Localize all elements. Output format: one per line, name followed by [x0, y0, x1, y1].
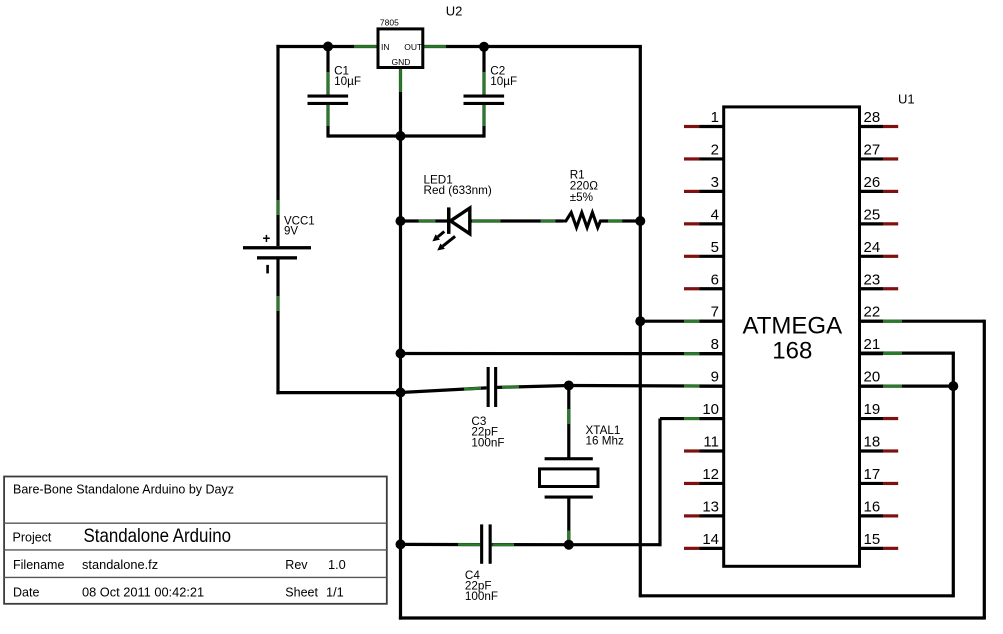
label R1 220ohm 5%: [570, 169, 599, 204]
wire C3 right lead: [497, 386, 569, 388]
wire AREF/AVCC vertical riser: [952, 353, 955, 597]
wire pin7 VCC: [640, 320, 723, 323]
pin 11 U1: [684, 434, 725, 452]
pin 13 U1: [684, 498, 725, 516]
title block text: date row: [13, 585, 344, 600]
svg-text:7: 7: [711, 304, 719, 321]
wire pin9 XTAL: [569, 384, 724, 388]
pin 3 U1: [684, 174, 725, 192]
pin 18 U1: [858, 434, 898, 452]
voltage regulator U2 7805: [378, 18, 423, 68]
node C4 GND junction: [396, 539, 406, 549]
wire C3 left lead: [401, 388, 487, 393]
svg-text:8: 8: [711, 336, 719, 353]
wire capacitor bottom rail C1-C2: [328, 134, 484, 137]
svg-text:5: 5: [711, 239, 719, 256]
crystal XTAL1: [540, 457, 599, 498]
pin 16 U1: [858, 498, 898, 516]
node C2 top junction: [479, 42, 489, 52]
pin 8 U1: [684, 336, 725, 354]
svg-text:Date: Date: [13, 586, 39, 600]
pin 10 U1: [684, 401, 725, 419]
svg-text:21: 21: [864, 336, 881, 353]
svg-text:13: 13: [702, 498, 719, 515]
svg-text:12: 12: [702, 466, 719, 483]
svg-text:Project: Project: [13, 531, 52, 545]
node pin8 GND junction: [396, 349, 406, 359]
svg-text:27: 27: [864, 141, 881, 158]
svg-text:10µF: 10µF: [334, 75, 361, 88]
svg-text:100nF: 100nF: [471, 436, 504, 449]
title block text: filename row: [13, 557, 346, 572]
pin 12 U1: [684, 466, 725, 484]
label ATMEGA 168: [743, 313, 843, 365]
label LED1 Red (633nm): [424, 174, 492, 197]
svg-text:4: 4: [711, 206, 719, 223]
pin 7 U1: [684, 304, 725, 322]
wire crystal top lead: [567, 386, 570, 458]
node C1 top junction: [323, 42, 333, 52]
wire pin8 GND: [401, 352, 724, 355]
svg-text:±5%: ±5%: [570, 191, 593, 204]
wire C2 bottom lead: [482, 105, 485, 138]
wire pin20 AVCC: [860, 385, 954, 388]
svg-text:23: 23: [864, 271, 881, 288]
svg-text:16 Mhz: 16 Mhz: [586, 435, 624, 448]
label C1 10uF: [334, 64, 361, 88]
wire C1 top lead: [326, 47, 329, 95]
svg-text:10µF: 10µF: [490, 75, 517, 88]
title block text: project row: [13, 525, 232, 547]
pin 26 U1: [858, 174, 898, 192]
pin 6 U1: [684, 271, 725, 289]
capacitor C3: [487, 367, 498, 407]
pin 17 U1: [858, 466, 898, 484]
svg-text:standalone.fz: standalone.fz: [82, 557, 158, 572]
pin 25 U1: [858, 206, 898, 224]
pin 23 U1: [858, 271, 898, 289]
svg-text:7805: 7805: [380, 18, 399, 28]
node LED cathode junction: [396, 216, 406, 226]
svg-text:Filename: Filename: [13, 558, 64, 572]
title block frame: [4, 477, 387, 604]
svg-text:1: 1: [711, 109, 719, 126]
capacitor C1: [308, 95, 349, 106]
label XTAL1 16 Mhz: [586, 424, 624, 448]
svg-text:28: 28: [864, 109, 881, 126]
IC U1 ATMEGA168 body: [724, 107, 860, 566]
svg-text:14: 14: [702, 531, 719, 548]
wire top +9V/+5V rail: [276, 45, 642, 48]
pin 24 U1: [858, 239, 898, 256]
svg-text:U1: U1: [898, 92, 915, 107]
resistor R1: [563, 213, 603, 228]
svg-text:18: 18: [864, 434, 881, 451]
node pin7 +5V junction: [635, 316, 645, 326]
label C4 22pF 100nF: [465, 569, 498, 603]
wire C4 right lead: [492, 543, 569, 546]
pin 14 U1: [684, 531, 725, 549]
svg-text:6: 6: [711, 271, 719, 288]
wire C2 top lead: [482, 47, 485, 95]
label C3 22pF 100nF: [471, 415, 504, 449]
pin 20 U1: [858, 369, 902, 387]
svg-text:16: 16: [864, 498, 881, 515]
pin 4 U1: [684, 206, 725, 224]
svg-text:U2: U2: [446, 3, 463, 18]
svg-text:ATMEGA: ATMEGA: [743, 313, 843, 340]
pin 27 U1: [858, 141, 898, 159]
wire LED-R1 branch: [401, 219, 641, 222]
capacitor C4: [480, 524, 492, 563]
svg-text:19: 19: [864, 401, 881, 418]
pin 2 U1: [684, 141, 725, 159]
wire +5V vertical drop from regulator OUT: [639, 47, 642, 596]
node crystal top junction: [564, 381, 574, 391]
wire pin21 AREF: [860, 352, 955, 355]
svg-text:24: 24: [864, 239, 881, 256]
svg-text:2: 2: [711, 141, 719, 158]
svg-text:GND: GND: [392, 57, 411, 67]
svg-text:26: 26: [864, 174, 881, 191]
svg-text:Rev: Rev: [285, 558, 308, 572]
svg-text:3: 3: [711, 174, 719, 191]
svg-text:9: 9: [711, 369, 719, 386]
wire C4 left lead: [401, 543, 481, 546]
pin 19 U1: [858, 401, 898, 419]
wire AVCC bottom run: [640, 594, 953, 597]
pin 5 U1: [684, 239, 725, 256]
svg-text:1/1: 1/1: [326, 585, 344, 600]
svg-text:100nF: 100nF: [465, 590, 498, 603]
wire pin22 GND: [860, 320, 985, 323]
svg-text:+: +: [263, 231, 271, 246]
svg-text:IN: IN: [381, 42, 390, 52]
wire GND left vertical (7805 GND): [399, 68, 402, 620]
wire bottom GND rail: [399, 616, 986, 619]
svg-text:15: 15: [864, 531, 881, 548]
svg-text:08 Oct 2011 00:42:21: 08 Oct 2011 00:42:21: [82, 585, 204, 600]
wire crystal bottom lead: [567, 498, 570, 544]
pin 15 U1: [858, 531, 898, 549]
svg-text:1.0: 1.0: [328, 557, 346, 572]
node battery/C3 GND junction: [396, 388, 406, 398]
svg-text:10: 10: [702, 401, 719, 418]
wire GND right vertical: [983, 320, 986, 618]
svg-text:25: 25: [864, 206, 881, 223]
node R1 +5V junction: [635, 216, 645, 226]
svg-text:20: 20: [864, 369, 881, 386]
svg-text:22: 22: [864, 304, 881, 321]
node GND rail junction: [396, 131, 406, 141]
pin 21 U1: [858, 336, 902, 354]
svg-text:Standalone Arduino: Standalone Arduino: [84, 525, 232, 547]
LED LED1: [432, 207, 469, 250]
wire C1 bottom lead: [326, 105, 329, 138]
battery VCC1 9V: [243, 231, 311, 273]
wire pin10 XTAL2: [569, 419, 724, 547]
capacitor C2: [464, 95, 505, 106]
svg-text:9V: 9V: [284, 226, 298, 238]
wire battery positive vertical: [276, 45, 279, 246]
svg-text:Bare-Bone Standalone Arduino b: Bare-Bone Standalone Arduino by Dayz: [13, 482, 234, 496]
label VCC1 9V: [284, 215, 315, 237]
svg-text:Sheet: Sheet: [285, 586, 318, 600]
svg-text:OUT: OUT: [404, 42, 422, 52]
svg-text:168: 168: [772, 338, 812, 365]
node crystal bottom junction: [564, 540, 574, 550]
svg-text:17: 17: [864, 466, 881, 483]
node pin20 AVCC junction: [948, 381, 958, 391]
wire battery negative to GND node: [276, 259, 400, 394]
label C2 10uF: [490, 64, 517, 88]
svg-text:Red (633nm): Red (633nm): [424, 184, 492, 197]
pin 28 U1: [858, 109, 898, 127]
svg-text:11: 11: [703, 434, 719, 451]
pin 1 U1: [684, 109, 725, 127]
pin 9 U1: [684, 369, 725, 387]
pin 22 U1: [858, 304, 902, 322]
